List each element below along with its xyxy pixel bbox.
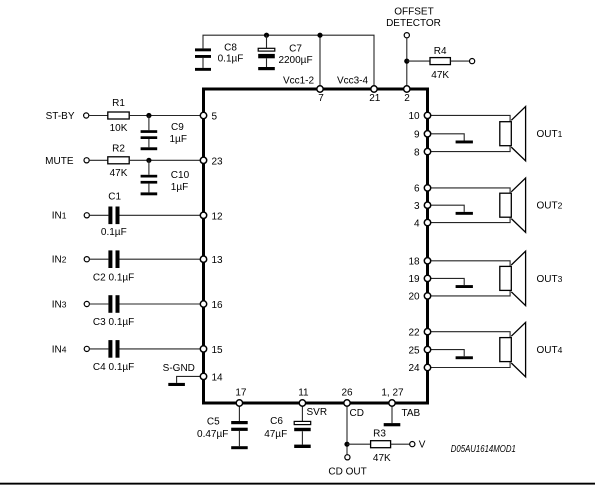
svg-text:18: 18	[408, 257, 420, 268]
speaker OUT1	[500, 107, 526, 161]
terminal MUTE	[84, 158, 89, 163]
pin 21	[371, 86, 377, 92]
wire C2 to IC	[120, 258, 204, 260]
svg-text:CD: CD	[350, 408, 364, 419]
svg-text:8: 8	[414, 147, 420, 158]
wire IN1 to coupling cap	[89, 214, 108, 216]
pin 10	[424, 112, 430, 118]
svg-text:10K: 10K	[110, 123, 128, 134]
wire pin7 drop	[319, 35, 321, 86]
svg-text:26: 26	[341, 388, 353, 399]
pin 11	[299, 400, 305, 406]
pin 20	[424, 293, 430, 299]
capacitor C7 (polarized)	[258, 35, 275, 70]
svg-text:7: 7	[318, 93, 324, 104]
svg-text:23: 23	[212, 156, 224, 167]
wire R2 to pin 23	[129, 159, 203, 161]
svg-text:12: 12	[212, 211, 224, 222]
svg-text:1µF: 1µF	[170, 134, 187, 145]
svg-text:0.47µF: 0.47µF	[197, 429, 228, 440]
wire C4 to IC	[120, 348, 204, 350]
svg-text:22: 22	[408, 327, 420, 338]
svg-text:R3: R3	[373, 429, 386, 440]
svg-text:C1: C1	[108, 191, 121, 202]
pin 22	[424, 329, 430, 335]
svg-text:SVR: SVR	[307, 407, 328, 418]
pin 14	[200, 373, 206, 379]
svg-text:47µF: 47µF	[264, 429, 287, 440]
node junction R2/C10	[146, 158, 151, 163]
wire pin 19 to ground	[428, 278, 465, 285]
svg-text:16: 16	[212, 300, 224, 311]
svg-text:IN4: IN4	[52, 344, 67, 355]
svg-text:25: 25	[408, 345, 420, 356]
wire R3 to V terminal	[391, 443, 410, 445]
ground S-GND (pin 14)	[168, 376, 203, 386]
capacitor C10	[141, 160, 158, 195]
svg-text:3: 3	[414, 201, 420, 212]
svg-text:TAB: TAB	[402, 408, 421, 419]
svg-text:47K: 47K	[110, 168, 128, 179]
terminal right of R4	[470, 59, 475, 64]
terminal IN3	[84, 301, 89, 306]
node junction above pin 7	[317, 33, 322, 38]
node junction R1/C9	[146, 113, 151, 118]
svg-text:C8: C8	[224, 43, 237, 54]
svg-text:Vcc1-2: Vcc1-2	[283, 75, 315, 86]
terminal OFFSET DETECTOR	[404, 33, 409, 38]
pin 4	[424, 219, 430, 225]
pin 6	[424, 185, 430, 191]
svg-text:47K: 47K	[373, 453, 391, 464]
svg-text:IN3: IN3	[52, 299, 67, 310]
svg-text:C4 0.1µF: C4 0.1µF	[93, 362, 134, 373]
svg-text:9: 9	[414, 130, 420, 141]
capacitor C9	[141, 116, 158, 151]
resistor R3	[347, 443, 371, 445]
svg-text:2200µF: 2200µF	[278, 55, 312, 66]
svg-text:15: 15	[212, 345, 224, 356]
svg-text:IN2: IN2	[52, 255, 67, 266]
resistor R4	[407, 60, 430, 62]
terminal CD OUT	[345, 455, 350, 460]
capacitor C2	[108, 250, 119, 268]
svg-text:C5: C5	[207, 417, 220, 428]
node junction above C7	[264, 33, 269, 38]
wire CD net	[346, 403, 348, 455]
wire IN4 to coupling cap	[89, 348, 108, 350]
wire pin 9 to ground	[428, 134, 465, 141]
svg-text:OUT4: OUT4	[537, 345, 563, 356]
svg-text:DETECTOR: DETECTOR	[386, 18, 441, 29]
pin 23	[200, 157, 206, 163]
ground TAB	[384, 403, 401, 426]
wire C3 to IC	[120, 303, 204, 305]
speaker OUT3	[500, 251, 526, 305]
pin 1, 27	[389, 400, 395, 406]
wire pin 24 to speaker OUT4 bottom	[428, 362, 511, 368]
svg-text:OUT3: OUT3	[537, 274, 563, 285]
pin 7	[317, 86, 323, 92]
ground at pin 3	[456, 212, 473, 215]
svg-text:MUTE: MUTE	[45, 156, 74, 167]
resistor R1	[108, 112, 129, 119]
svg-text:OUT1: OUT1	[537, 129, 563, 140]
wire pin 25 to ground	[428, 350, 465, 357]
pin 5	[200, 112, 206, 118]
pin 24	[424, 364, 430, 370]
pin 2	[404, 86, 410, 92]
wire pin 10 to speaker OUT1 top	[428, 115, 511, 121]
svg-text:0.1µF: 0.1µF	[101, 227, 127, 238]
wire IN2 to coupling cap	[89, 258, 108, 260]
svg-text:R2: R2	[112, 143, 125, 154]
terminal IN2	[84, 257, 89, 262]
ground at pin 25	[456, 356, 473, 359]
speaker OUT2	[500, 178, 526, 232]
wire IN3 to coupling cap	[89, 303, 108, 305]
wire R4 to terminal	[450, 60, 469, 62]
svg-text:R4: R4	[434, 46, 447, 57]
wire Vcc top rail	[203, 35, 374, 86]
svg-text:C9: C9	[171, 122, 184, 133]
terminal V	[410, 442, 415, 447]
svg-text:47K: 47K	[431, 70, 449, 81]
svg-text:1, 27: 1, 27	[381, 388, 404, 399]
wire pin 8 to speaker OUT1 bottom	[428, 146, 511, 152]
svg-text:24: 24	[408, 363, 420, 374]
svg-text:C10: C10	[171, 170, 190, 181]
capacitor C6 (polarized)	[294, 403, 311, 448]
capacitor C4	[108, 340, 119, 358]
svg-text:5: 5	[212, 112, 218, 123]
pin 26	[344, 400, 350, 406]
pin 17	[236, 400, 242, 406]
svg-text:R1: R1	[112, 98, 125, 109]
wire C1 to IC	[120, 214, 204, 216]
svg-text:CD OUT: CD OUT	[328, 466, 366, 477]
pin 13	[200, 256, 206, 262]
IC body U1	[204, 89, 428, 403]
svg-text:OFFSET: OFFSET	[394, 7, 433, 18]
pin 16	[200, 301, 206, 307]
svg-text:17: 17	[235, 388, 247, 399]
svg-text:21: 21	[369, 93, 381, 104]
capacitor C1	[108, 207, 119, 225]
svg-text:S-GND: S-GND	[163, 363, 195, 374]
svg-text:V: V	[419, 440, 426, 451]
svg-text:6: 6	[414, 184, 420, 195]
svg-text:C7: C7	[289, 43, 302, 54]
svg-text:C6: C6	[270, 416, 283, 427]
svg-text:20: 20	[408, 292, 420, 303]
svg-text:14: 14	[212, 372, 224, 383]
capacitor C5	[231, 403, 248, 449]
ground at pin 19	[456, 285, 473, 288]
node junction CD/R3	[344, 442, 349, 447]
wire pin 6 to speaker OUT2 top	[428, 188, 511, 193]
pin 12	[200, 212, 206, 218]
svg-text:0.1µF: 0.1µF	[218, 53, 244, 64]
wire pin 20 to speaker OUT3 bottom	[428, 290, 511, 296]
node junction pin2/R4	[404, 59, 409, 64]
capacitor C3	[108, 295, 119, 313]
pin 8	[424, 148, 430, 154]
wire ST-BY to R1	[89, 115, 108, 117]
svg-text:C2 0.1µF: C2 0.1µF	[93, 272, 134, 283]
svg-text:OUT2: OUT2	[537, 201, 563, 212]
svg-text:C3 0.1µF: C3 0.1µF	[93, 317, 134, 328]
pin 18	[424, 258, 430, 264]
svg-text:ST-BY: ST-BY	[46, 111, 75, 122]
svg-text:4: 4	[414, 218, 420, 229]
pin 15	[200, 346, 206, 352]
pin 9	[424, 131, 430, 137]
border bottom rule	[0, 483, 595, 485]
wire offset detector to pin 2	[406, 38, 408, 86]
pin 25	[424, 346, 430, 352]
svg-text:D05AU1614MOD1: D05AU1614MOD1	[451, 444, 516, 455]
pin 3	[424, 202, 430, 208]
svg-text:1µF: 1µF	[171, 182, 188, 193]
svg-text:19: 19	[408, 274, 420, 285]
pin 19	[424, 275, 430, 281]
terminal ST-BY	[84, 113, 89, 118]
svg-text:11: 11	[298, 388, 309, 399]
wire pin 18 to speaker OUT3 top	[428, 261, 511, 267]
svg-text:13: 13	[212, 255, 224, 266]
resistor R2	[108, 157, 129, 164]
terminal IN4	[84, 346, 89, 351]
wire MUTE to R2	[89, 159, 108, 161]
svg-text:IN1: IN1	[52, 211, 67, 222]
capacitor C8	[195, 48, 211, 70]
speaker OUT4	[500, 322, 526, 376]
wire pin 3 to ground	[428, 205, 465, 212]
wire pin 22 to speaker OUT4 top	[428, 332, 511, 338]
ground at pin 9	[456, 141, 473, 144]
terminal IN1	[84, 213, 89, 218]
svg-text:Vcc3-4: Vcc3-4	[337, 75, 369, 86]
svg-text:2: 2	[404, 93, 410, 104]
svg-text:10: 10	[408, 111, 420, 122]
wire pin 4 to speaker OUT2 bottom	[428, 217, 511, 222]
wire R1 to pin 5	[129, 115, 203, 117]
